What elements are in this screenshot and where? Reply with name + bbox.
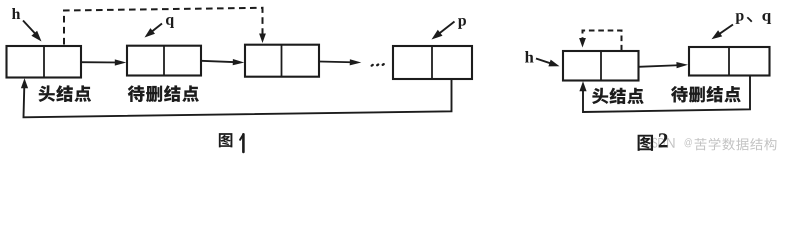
dashed pointer: N1.next redirected to N3 (fig1) [64,8,266,45]
wire M1 -> M2 (fig2) [639,62,689,68]
pointer arrow q -> N2 (fig1) [145,24,163,38]
watermark CSDN @苦学数据结构 [645,138,776,151]
wire N3 -> ellipsis (fig1) [319,59,361,65]
label 待删结点 (node to delete, fig2) [671,86,741,103]
pointer arrow h -> M1 (fig2) [536,59,560,67]
caption 图2 (fig2) [638,133,668,151]
label 头结点 (head node, fig1) [38,85,91,102]
pointer arrow p -> N4 (fig1) [432,22,455,40]
return wire: M2 bottom back to M1 (fig2) [579,76,750,113]
node box N1 (head node, fig1) [7,46,82,78]
dashed self loop on M1 (fig2) [579,31,621,51]
label p、q (fig2) [736,13,772,24]
node box N3 (fig1) [245,45,319,77]
label h (fig1) [12,8,20,19]
pointer arrow h -> N1 (fig1) [23,21,42,42]
pointer arrow p、q -> M2 (fig2) [712,25,734,40]
caption 图1 (fig1) [219,133,244,152]
node box M1 (head node, fig2) [563,51,639,81]
node box N4 (last node, fig1) [393,46,472,79]
ellipsis dots (fig1) [370,62,385,67]
label 待删结点 (node to delete, fig1) [128,85,199,102]
label q (fig1) [166,17,174,28]
node box N2 (to-delete node, fig1) [127,46,201,76]
label p (fig1) [458,18,466,29]
return wire: N4 bottom back to N1 (fig1) [21,78,452,117]
label 头结点 (head node, fig2) [592,88,644,105]
wire N1 -> N2 (fig1) [81,59,126,65]
digit 1 of caption 图1 [242,134,245,152]
node box M2 (to-delete node, fig2) [689,47,770,76]
wire N2 -> N3 (fig1) [201,59,244,65]
label h (fig2) [525,51,534,62]
